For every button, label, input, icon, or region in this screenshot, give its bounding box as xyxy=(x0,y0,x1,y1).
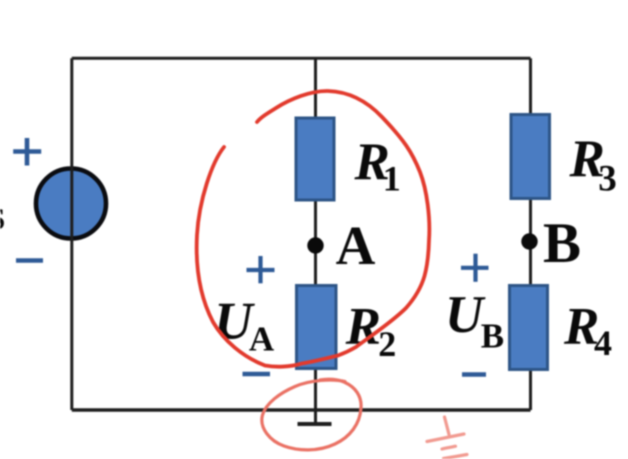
svg-text:A: A xyxy=(249,320,275,359)
wire right lower xyxy=(529,368,532,410)
wire top xyxy=(72,57,531,60)
node B xyxy=(521,233,537,249)
svg-text:1: 1 xyxy=(383,158,401,198)
wire left xyxy=(70,58,73,410)
svg-text:B: B xyxy=(481,316,504,355)
plus of UA xyxy=(247,256,275,283)
ground xyxy=(298,422,332,426)
label R3 xyxy=(569,130,617,200)
wire bottom xyxy=(72,408,531,412)
label UB xyxy=(445,286,504,356)
svg-text:S: S xyxy=(0,201,5,236)
red annotation ground sketch bottom right xyxy=(427,417,467,459)
wire right middle xyxy=(529,196,532,287)
minus of source xyxy=(16,258,43,263)
minus of UB xyxy=(462,372,486,377)
label R4 xyxy=(563,297,612,362)
svg-text:R: R xyxy=(345,297,381,355)
red annotation big loop xyxy=(197,91,430,367)
wire middle lower to ground xyxy=(314,367,317,423)
node A xyxy=(307,237,323,253)
label R1 xyxy=(354,133,401,198)
wire right upper xyxy=(529,58,532,117)
wire middle upper xyxy=(314,58,317,120)
resistor R3 xyxy=(511,115,550,199)
plus of UB xyxy=(461,254,489,282)
svg-text:4: 4 xyxy=(594,323,612,363)
wire middle between R1 and R2 xyxy=(314,198,317,287)
resistor R2 xyxy=(297,286,337,369)
voltage source US xyxy=(36,169,106,239)
svg-text:3: 3 xyxy=(598,159,617,200)
red annotation ellipse around ground xyxy=(262,379,361,450)
label UA xyxy=(214,292,275,358)
svg-text:B: B xyxy=(543,212,581,275)
svg-text:A: A xyxy=(336,215,376,276)
minus of UA xyxy=(243,372,271,377)
resistor R1 xyxy=(296,118,334,200)
resistor R4 xyxy=(510,286,548,370)
plus of source xyxy=(13,138,41,166)
label R2 xyxy=(345,297,397,364)
